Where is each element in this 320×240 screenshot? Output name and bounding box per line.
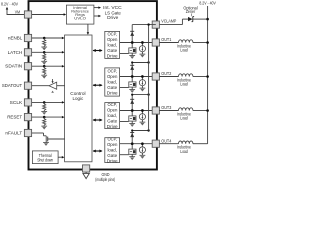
svg-text:Open: Open	[107, 74, 118, 79]
svg-text:UVLO: UVLO	[74, 16, 86, 21]
svg-text:Logic: Logic	[73, 96, 84, 102]
svg-text:Gate: Gate	[107, 85, 117, 90]
svg-text:VM: VM	[15, 10, 20, 15]
svg-text:(multiple pins): (multiple pins)	[95, 177, 115, 182]
svg-text:Zener: Zener	[186, 9, 196, 14]
svg-text:RESET: RESET	[7, 115, 22, 120]
svg-text:load,: load,	[107, 148, 117, 153]
svg-text:Drive: Drive	[107, 124, 118, 129]
svg-text:VCLAMP: VCLAMP	[161, 19, 176, 25]
svg-text:Load: Load	[180, 149, 188, 154]
svg-text:nFAULT: nFAULT	[5, 131, 22, 136]
svg-text:Open: Open	[107, 37, 118, 42]
svg-text:Open: Open	[107, 142, 118, 147]
svg-text:Gate: Gate	[107, 119, 117, 124]
svg-text:Control: Control	[70, 91, 85, 97]
svg-text:SDATOUT: SDATOUT	[2, 83, 22, 88]
svg-text:nENBL: nENBL	[8, 36, 23, 41]
svg-text:OCP,: OCP,	[107, 32, 117, 37]
svg-text:load,: load,	[107, 113, 117, 118]
svg-text:OCP,: OCP,	[107, 137, 117, 142]
svg-text:Load: Load	[180, 82, 188, 87]
svg-text:OCP,: OCP,	[107, 102, 117, 107]
svg-text:LATCH: LATCH	[8, 50, 23, 55]
svg-text:Int. VCC: Int. VCC	[103, 5, 122, 10]
svg-text:Drive: Drive	[107, 53, 118, 58]
svg-text:OCP,: OCP,	[107, 69, 117, 74]
svg-text:8.2V - 40V: 8.2V - 40V	[1, 2, 19, 7]
svg-text:Drive: Drive	[107, 15, 119, 20]
svg-text:Open: Open	[107, 108, 118, 113]
svg-text:SCLK: SCLK	[10, 100, 23, 105]
svg-text:Drive: Drive	[107, 159, 118, 164]
svg-text:8.2V - 40V: 8.2V - 40V	[199, 1, 216, 6]
svg-text:SDATIN: SDATIN	[5, 64, 22, 69]
svg-text:Load: Load	[180, 116, 188, 121]
svg-text:Shut down: Shut down	[37, 157, 53, 162]
svg-text:Load: Load	[180, 48, 188, 53]
svg-text:Gate: Gate	[107, 153, 117, 158]
svg-text:load,: load,	[107, 80, 117, 85]
svg-text:load,: load,	[107, 42, 117, 47]
svg-text:Drive: Drive	[107, 90, 118, 95]
svg-text:Gate: Gate	[107, 48, 117, 53]
